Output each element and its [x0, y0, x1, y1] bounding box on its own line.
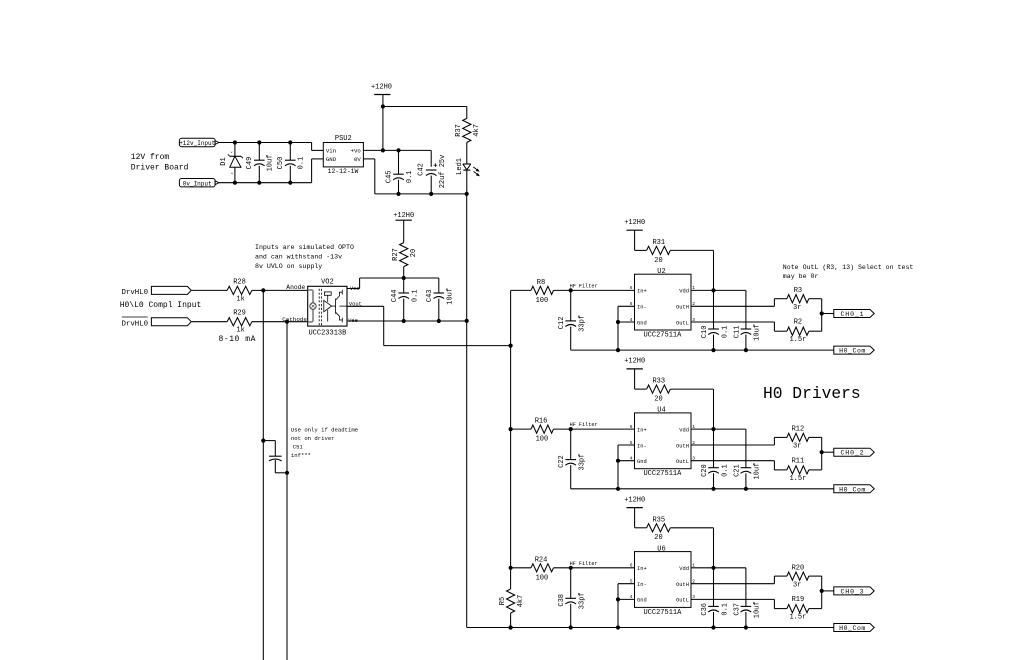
note inputs are simulated OPTO — [255, 244, 354, 270]
svg-text:DrvHL0: DrvHL0 — [122, 289, 149, 297]
svg-text:33pf: 33pf — [579, 454, 587, 471]
capacitor C38 33pf — [558, 568, 587, 628]
wire cathode branch down — [286, 322, 288, 660]
svg-text:Gnd: Gnd — [637, 320, 647, 326]
svg-text:0.1: 0.1 — [721, 326, 729, 339]
svg-text:+12H0: +12H0 — [624, 219, 645, 227]
svg-text:In+: In+ — [637, 566, 647, 572]
svg-text:R5: R5 — [499, 597, 507, 605]
svg-text:H0_Com: H0_Com — [839, 486, 866, 493]
svg-text:R19: R19 — [792, 596, 805, 604]
svg-text:33pf: 33pf — [579, 315, 587, 332]
tag H0_Com — [834, 624, 874, 633]
resistor R37 4k7 — [455, 107, 481, 165]
svg-text:100: 100 — [536, 297, 549, 305]
svg-text:CH0_1: CH0_1 — [840, 311, 864, 318]
svg-text:1k: 1k — [236, 295, 244, 303]
svg-text:10uf: 10uf — [753, 324, 761, 341]
svg-text:CH0_2: CH0_2 — [840, 450, 864, 457]
wire opto Vee rail to ground — [347, 319, 467, 323]
resistor R29 1k — [227, 310, 252, 335]
capacitor C21 10uf — [733, 429, 761, 491]
wire opto Vout to driver bus — [347, 306, 513, 347]
svg-text:4k7: 4k7 — [473, 124, 481, 137]
svg-text:UCC23313B: UCC23313B — [308, 330, 346, 338]
wire output node — [820, 576, 834, 609]
PSU2 dc-dc converter 12-12-1W — [323, 135, 363, 175]
wire main ground vertical — [465, 194, 469, 628]
svg-text:+12v_Input: +12v_Input — [179, 140, 215, 147]
tag CH0_2 — [834, 448, 874, 457]
svg-text:C49: C49 — [246, 157, 254, 170]
tag +12v_Input — [179, 138, 219, 147]
wire to In+ — [569, 566, 635, 570]
svg-text:C36: C36 — [701, 603, 709, 616]
label 12V from Driver Board — [131, 153, 189, 172]
svg-text:C21: C21 — [733, 464, 741, 477]
resistor R31 20 — [635, 239, 714, 290]
svg-text:Vin: Vin — [326, 148, 336, 155]
svg-text:0.1: 0.1 — [411, 289, 419, 302]
wire R29 to opto cathode — [252, 320, 308, 324]
svg-text:Note OutL (R3, 13) Select on t: Note OutL (R3, 13) Select on test — [783, 264, 914, 271]
wire OutL — [691, 322, 774, 331]
wire to In+ — [569, 288, 635, 292]
svg-text:Driver Board: Driver Board — [131, 164, 189, 173]
capacitor C11 10uf — [733, 290, 761, 352]
capacitor C22 33pf — [558, 429, 587, 489]
svg-text:OutL: OutL — [676, 320, 689, 326]
capacitor C36 0.1 — [701, 568, 729, 630]
svg-text:OutL: OutL — [676, 459, 689, 465]
driver U2 UCC27511A — [630, 268, 696, 340]
svg-text:R20: R20 — [792, 564, 805, 572]
resistor R3 3r — [774, 287, 821, 312]
wire In- / Gnd tie — [616, 584, 635, 630]
svg-text:R31: R31 — [652, 239, 665, 247]
svg-text:C45: C45 — [386, 170, 394, 183]
wire tag to R28 — [192, 289, 228, 291]
svg-text:C38: C38 — [558, 594, 566, 607]
resistor R33 20 — [635, 378, 714, 429]
capacitor C12 33pf — [558, 290, 587, 350]
svg-text:In-: In- — [637, 443, 647, 449]
svg-text:In-: In- — [637, 582, 647, 588]
wire opto Vcc rail — [347, 276, 439, 289]
svg-text:R28: R28 — [233, 278, 246, 286]
svg-text:DrvHL0: DrvHL0 — [122, 320, 149, 328]
svg-text:0.1: 0.1 — [721, 603, 729, 616]
svg-text:0.1: 0.1 — [721, 464, 729, 477]
wire OutH — [691, 576, 774, 584]
svg-text:10uf: 10uf — [446, 288, 454, 305]
capacitor C49 10uf — [246, 140, 275, 184]
LED Led1 — [456, 158, 479, 194]
resistor R12 3r — [774, 426, 821, 451]
svg-text:may be 0r: may be 0r — [783, 273, 819, 280]
wire Vdd — [691, 566, 746, 570]
svg-text:10uf: 10uf — [753, 463, 761, 480]
wire H0_Com rail — [467, 625, 834, 629]
resistor R28 1k — [227, 278, 252, 303]
svg-text:D1: D1 — [220, 157, 228, 165]
wire OutH — [691, 299, 774, 307]
svg-text:C20: C20 — [701, 464, 709, 477]
power symbol +12H0 (U6) — [624, 496, 645, 528]
svg-text:C42: C42 — [418, 163, 426, 176]
svg-text:OutH: OutH — [676, 443, 689, 449]
svg-text:R12: R12 — [792, 426, 805, 434]
svg-text:C12: C12 — [558, 317, 566, 330]
svg-text:C37: C37 — [733, 603, 741, 616]
wire driver input signal bus — [509, 290, 513, 570]
svg-text:R2: R2 — [794, 319, 802, 327]
power symbol +12H0 (PSU output) — [371, 84, 392, 107]
svg-text:0.1: 0.1 — [298, 157, 306, 170]
driver U4 UCC27511A — [630, 407, 696, 479]
svg-text:OutH: OutH — [676, 305, 689, 311]
svg-text:Gnd: Gnd — [637, 459, 647, 465]
svg-text:Vdd: Vdd — [679, 289, 689, 295]
svg-text:100: 100 — [536, 436, 549, 444]
wire H0_Com rail — [571, 349, 834, 351]
capacitor C10 0.1 — [701, 290, 729, 352]
svg-text:Inputs are simulated OPTO: Inputs are simulated OPTO — [255, 244, 354, 251]
wire OutH — [691, 437, 774, 445]
svg-text:1.5r: 1.5r — [789, 336, 806, 344]
svg-text:20: 20 — [654, 257, 662, 265]
svg-text:U6: U6 — [657, 545, 665, 553]
svg-text:+12H0: +12H0 — [371, 84, 392, 92]
svg-text:0V: 0V — [354, 156, 361, 163]
resistor R11 1.5r — [774, 457, 821, 483]
wire input 0v rail — [219, 159, 323, 183]
svg-text:Gnd: Gnd — [637, 598, 647, 604]
svg-text:100: 100 — [536, 574, 549, 582]
svg-text:8-10 mA: 8-10 mA — [219, 335, 256, 344]
svg-text:H0_Com: H0_Com — [839, 625, 866, 632]
tag H0_Com — [834, 346, 874, 355]
svg-text:4k7: 4k7 — [517, 595, 525, 608]
capacitor C37 10uf — [733, 568, 761, 630]
svg-text:20: 20 — [654, 396, 662, 404]
resistor R35 20 — [635, 516, 714, 567]
tag H0_Com — [834, 485, 874, 494]
svg-text:R16: R16 — [535, 418, 548, 426]
resistor R16 100 — [511, 418, 571, 444]
svg-text:+Vo: +Vo — [351, 148, 362, 155]
svg-text:1.5r: 1.5r — [789, 614, 806, 622]
svg-text:not on driver: not on driver — [291, 435, 335, 442]
svg-text:PSU2: PSU2 — [335, 135, 352, 143]
svg-text:+12H0: +12H0 — [624, 496, 645, 504]
wire OutL — [691, 461, 774, 470]
wire to In+ — [569, 427, 635, 431]
zener diode D1 — [220, 140, 243, 184]
svg-text:R3: R3 — [794, 287, 802, 295]
wire output node — [820, 299, 834, 332]
svg-text:R27: R27 — [392, 248, 400, 261]
svg-text:H0_Com: H0_Com — [839, 348, 866, 355]
resistor R19 1.5r — [774, 596, 821, 622]
svg-text:Use only if deadtime: Use only if deadtime — [291, 426, 358, 433]
power symbol +12H0 (U2) — [624, 219, 645, 251]
capacitor C50 0.1 — [277, 140, 306, 184]
svg-text:U4: U4 — [657, 407, 665, 415]
resistor R8 100 — [511, 279, 571, 305]
svg-text:H0\L0 Compl Input: H0\L0 Compl Input — [120, 301, 202, 310]
svg-text:+12H0: +12H0 — [624, 358, 645, 366]
svg-text:1.5r: 1.5r — [789, 475, 806, 483]
svg-text:12V from: 12V from — [131, 153, 170, 162]
tag CH0_1 — [834, 310, 874, 319]
svg-text:1k: 1k — [236, 327, 244, 335]
resistor R24 100 — [511, 556, 571, 582]
wire H0_Com rail — [571, 488, 834, 490]
wire In- / Gnd tie — [616, 306, 635, 352]
driver U6 UCC27511A — [630, 545, 696, 617]
svg-text:33pf: 33pf — [579, 592, 587, 609]
svg-text:In+: In+ — [637, 427, 647, 433]
svg-text:VO2: VO2 — [321, 278, 334, 286]
svg-text:R8: R8 — [537, 279, 545, 287]
capacitor C43 10uf — [426, 278, 454, 321]
svg-text:UCC27511A: UCC27511A — [643, 609, 682, 617]
wire PSU +Vo output — [363, 148, 431, 167]
svg-text:Led1: Led1 — [456, 158, 464, 175]
wire output node — [820, 437, 834, 470]
note OutL select on test — [783, 264, 914, 280]
tag 0v_Input — [179, 179, 219, 188]
svg-text:OutH: OutH — [676, 582, 689, 588]
svg-text:R24: R24 — [535, 556, 548, 564]
wire Vdd — [691, 427, 746, 431]
svg-text:C43: C43 — [426, 289, 434, 302]
svg-text:3r: 3r — [793, 581, 801, 589]
svg-text:20: 20 — [410, 249, 418, 257]
svg-text:+12H0: +12H0 — [393, 212, 414, 220]
optocoupler VO2 UCC23313B — [282, 278, 362, 337]
wire tag to R29 — [192, 321, 228, 323]
svg-text:4: 4 — [231, 173, 233, 176]
svg-text:0.1: 0.1 — [406, 170, 414, 183]
svg-text:Vout: Vout — [349, 301, 362, 307]
svg-text:H0 Drivers: H0 Drivers — [763, 384, 861, 403]
svg-text:HF Filter: HF Filter — [570, 283, 598, 289]
tag CH0_3 — [834, 587, 874, 596]
wire anode branch down — [262, 290, 264, 660]
svg-text:In-: In- — [637, 305, 647, 311]
svg-text:1nf***: 1nf*** — [291, 452, 311, 459]
svg-text:v: v — [231, 151, 233, 154]
svg-text:OutL: OutL — [676, 598, 689, 604]
svg-text:3r: 3r — [793, 304, 801, 312]
svg-text:R33: R33 — [652, 378, 665, 386]
svg-text:U2: U2 — [657, 268, 665, 276]
resistor R20 3r — [774, 564, 821, 589]
svg-text:C44: C44 — [391, 289, 399, 302]
wire R28 to opto anode — [252, 288, 308, 292]
svg-text:C10: C10 — [701, 326, 709, 339]
capacitor C42 22uf 25v (polarized) — [418, 155, 447, 194]
svg-text:R37: R37 — [455, 124, 463, 137]
capacitor C44 0.1 — [391, 278, 419, 321]
power symbol +12H0 (R27) — [393, 212, 414, 243]
svg-text:C50: C50 — [277, 157, 285, 170]
svg-text:GND: GND — [326, 156, 337, 163]
svg-text:C22: C22 — [558, 455, 566, 468]
svg-text:Vee: Vee — [348, 318, 358, 324]
resistor R2 1.5r — [774, 319, 821, 345]
svg-text:Vdd: Vdd — [679, 566, 689, 572]
tag DrvHL0 (top) — [122, 286, 192, 297]
wire In- / Gnd tie — [616, 445, 635, 491]
svg-text:R11: R11 — [792, 457, 805, 465]
svg-text:HF Filter: HF Filter — [570, 422, 598, 428]
svg-text:0v_Input: 0v_Input — [183, 180, 212, 187]
capacitor C51 (deadtime) — [261, 439, 289, 475]
svg-text:UCC27511A: UCC27511A — [643, 470, 682, 478]
svg-text:C51: C51 — [293, 443, 304, 450]
wire +12 rail to R37 — [381, 104, 467, 152]
wire OutL — [691, 599, 774, 608]
svg-text:CH0_3: CH0_3 — [840, 588, 864, 595]
wire Vdd — [691, 288, 746, 292]
svg-text:20: 20 — [654, 534, 662, 542]
svg-text:R35: R35 — [652, 516, 665, 524]
svg-text:HF Filter: HF Filter — [570, 561, 598, 567]
svg-text:12-12-1W: 12-12-1W — [328, 168, 359, 175]
wire input +12v rail — [219, 143, 323, 151]
resistor R27 20 — [392, 243, 418, 278]
wire PSU 0V output — [363, 159, 468, 196]
power symbol +12H0 (U4) — [624, 358, 645, 390]
svg-text:R29: R29 — [233, 310, 246, 318]
svg-text:UCC27511A: UCC27511A — [643, 331, 682, 339]
tag DrvHL0 (bottom, inverted) — [122, 317, 192, 328]
resistor R5 4k7 pulldown — [499, 568, 525, 630]
svg-text:In+: In+ — [637, 289, 647, 295]
svg-text:8v UVLO on supply: 8v UVLO on supply — [255, 263, 322, 270]
svg-text:C11: C11 — [733, 326, 741, 339]
svg-text:3r: 3r — [793, 443, 801, 451]
svg-text:Vdd: Vdd — [679, 427, 689, 433]
capacitor C45 0.1 — [386, 150, 415, 194]
capacitor C20 0.1 — [701, 429, 729, 491]
svg-text:22uf 25v: 22uf 25v — [439, 155, 447, 189]
svg-text:10uf: 10uf — [267, 155, 275, 172]
svg-text:and can withstand -13v: and can withstand -13v — [255, 254, 342, 261]
note use only if deadtime — [291, 426, 358, 459]
svg-text:10uf: 10uf — [753, 601, 761, 618]
svg-text:Vcc: Vcc — [350, 286, 360, 292]
